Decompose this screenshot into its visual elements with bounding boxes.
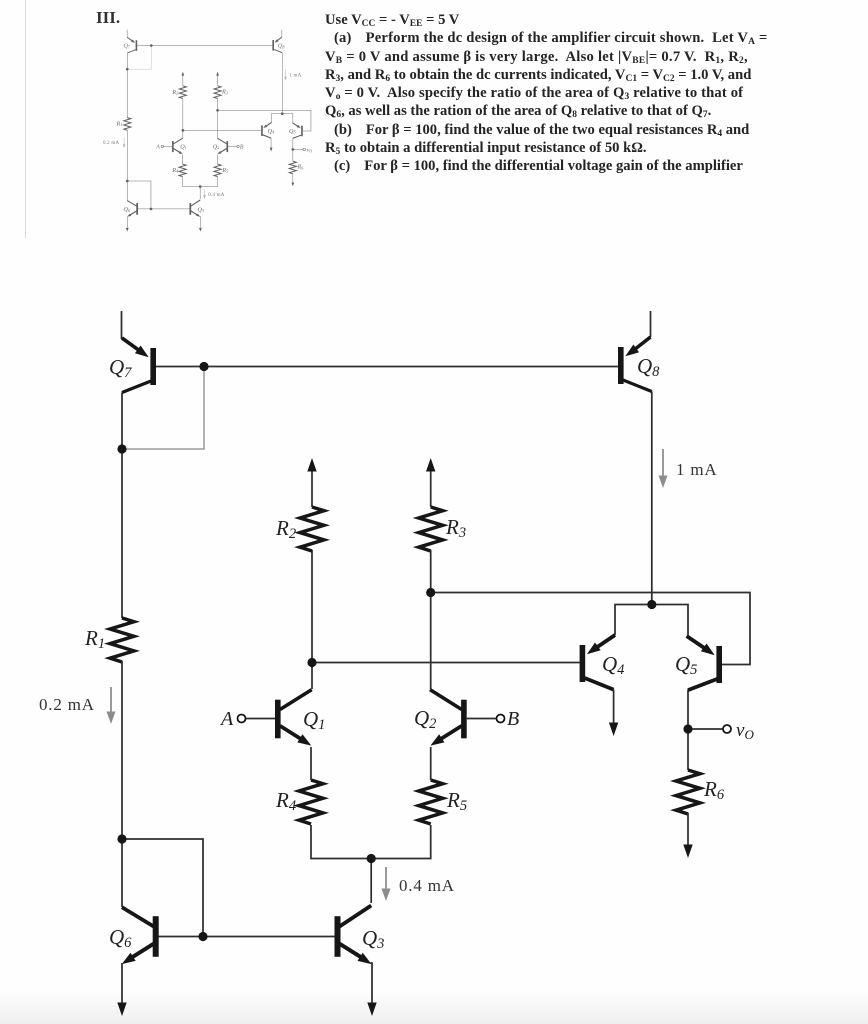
terminal: node A circle — [238, 715, 246, 723]
wire: VCC lead into Q8 emitter — [650, 311, 652, 337]
resistor R4 — [299, 780, 323, 824]
junction node: output vO — [683, 724, 692, 733]
svg-text:Q1: Q1 — [303, 707, 325, 733]
wire: Q2 emitter down to R5 — [430, 747, 432, 780]
wire: left rail from diode node to R1 — [121, 449, 123, 618]
wire: VC2 node rail over to Q5 base loop — [431, 593, 750, 665]
junction node: tail current node — [367, 854, 376, 863]
current arrow: 0.2 mA — [107, 687, 116, 724]
terminal: vO circle — [723, 725, 731, 733]
svg-text:Q4: Q4 — [602, 652, 624, 678]
resistor R6 — [676, 770, 700, 814]
wire: Q6/Q3 base rail — [155, 936, 335, 938]
wire: R2 top lead to VCC arrow — [311, 471, 313, 507]
wire: Q7 collector down to diode node — [121, 393, 123, 450]
junction node: left rail / mirror base — [117, 834, 126, 843]
transistor Q5 (pnp) — [687, 636, 722, 690]
junction node: Q7 diode connection — [117, 444, 126, 453]
wire: left rail R1 to mirror node — [121, 661, 123, 839]
transistor Q4 (pnp) — [580, 635, 615, 690]
arrow: Q4 collector arrowhead down — [609, 723, 618, 737]
resistor R2 — [300, 507, 324, 551]
junction node: Q8 collector / Q4 Q5 emitters — [647, 600, 656, 609]
wire: tail node down from R4/R5 rail to Q3 collector — [370, 859, 372, 904]
svg-text:R2: R2 — [275, 516, 296, 542]
wire: Q4 collector down to arrow — [613, 690, 615, 723]
wire: node B lead — [467, 718, 497, 720]
wire: R6 to VEE arrow — [687, 813, 689, 845]
svg-text:Q6: Q6 — [109, 925, 132, 951]
transistor Q6 (npn, mirrored) — [122, 907, 159, 964]
arrow: R2 VCC arrowhead up — [307, 458, 316, 472]
wire: Q7 base-collector diode connection jog — [122, 367, 204, 450]
wire: R2 bottom to collector node of Q1 — [311, 550, 313, 689]
wire: left rail down to Q6 collector — [121, 839, 123, 907]
wire: output node down to R6 — [687, 729, 689, 770]
svg-text:Q3: Q3 — [362, 926, 384, 952]
wire: top rail Q7 base to Q8 base — [156, 366, 618, 368]
wire: R4/R5 bottom rail (tail node) — [311, 825, 431, 859]
wire: node A lead — [246, 718, 276, 720]
wire: VC1 node rail to Q4 base — [312, 662, 580, 664]
resistor R5 — [419, 780, 443, 824]
transistor Q8 (pnp) — [618, 337, 652, 392]
svg-text:vO: vO — [736, 720, 754, 742]
arrow: Q3 emitter VEE arrowhead — [367, 1003, 376, 1017]
wire: Q3 emitter to VEE arrow — [371, 963, 373, 1003]
svg-text:Q8: Q8 — [637, 354, 660, 380]
svg-text:Q7: Q7 — [109, 355, 132, 381]
wire: Q1 emitter down to R4 — [310, 747, 312, 780]
arrow: Q6 emitter VEE arrowhead — [117, 1003, 126, 1017]
svg-text:Q5: Q5 — [675, 652, 697, 678]
junction node: Q7 base / top rail — [199, 362, 208, 371]
transistor Q2 (npn, mirrored) — [430, 690, 467, 746]
svg-text:R6: R6 — [703, 777, 725, 803]
junction node: Q6/Q3 base rail — [198, 932, 207, 941]
svg-text:1 mA: 1 mA — [676, 460, 717, 479]
arrow: R3 VCC arrowhead up — [426, 458, 435, 472]
svg-text:0.2 mA: 0.2 mA — [39, 695, 95, 714]
svg-text:A: A — [219, 708, 234, 730]
arrow: R6 VEE arrowhead down — [683, 845, 692, 859]
transistor Q1 (npn) — [275, 690, 312, 746]
svg-text:R1: R1 — [84, 626, 105, 652]
thumbnail copy of full schematic — [103, 30, 312, 232]
problem number III. — [96, 8, 120, 28]
svg-text:R4: R4 — [275, 788, 296, 814]
svg-text:B: B — [507, 708, 519, 730]
wire: mirror node jog to base rail — [122, 839, 203, 937]
terminal: node B circle — [497, 715, 505, 723]
current arrow: 0.4 mA — [382, 867, 391, 901]
svg-text:Q2: Q2 — [414, 706, 436, 732]
junction node: VC2 (Q2 collector / R3) — [426, 588, 435, 597]
resistor R3 — [419, 507, 443, 551]
bottom gray strip — [0, 992, 868, 1024]
page edge line — [25, 0, 26, 238]
svg-text:R5: R5 — [446, 788, 467, 814]
current arrow: 1 mA — [659, 449, 668, 488]
transistor Q7 (pnp, diode connected) — [122, 338, 156, 393]
svg-text:R3: R3 — [445, 515, 466, 541]
wire: output node to vO terminal — [688, 728, 723, 730]
transistor Q3 (npn) — [335, 906, 372, 965]
wire: Q6 emitter to VEE arrow — [121, 963, 123, 1003]
wire: Q4/Q5 shared emitter rail — [615, 605, 688, 636]
resistor R1 — [110, 618, 134, 662]
wire: VCC lead into Q7 emitter — [121, 311, 123, 339]
wire: Q8 collector down to Q4/Q5 emitter node — [651, 392, 653, 605]
junction node: VC1 (Q1 collector / R2) — [307, 658, 316, 667]
problem statement text — [325, 11, 868, 176]
wire: R3 bottom through VC2 node to Q2 collector — [430, 550, 432, 689]
svg-text:0.4 mA: 0.4 mA — [399, 876, 455, 895]
wire: Q5 collector down to output node — [687, 690, 689, 729]
wire: R3 top lead to VCC arrow — [430, 471, 432, 507]
